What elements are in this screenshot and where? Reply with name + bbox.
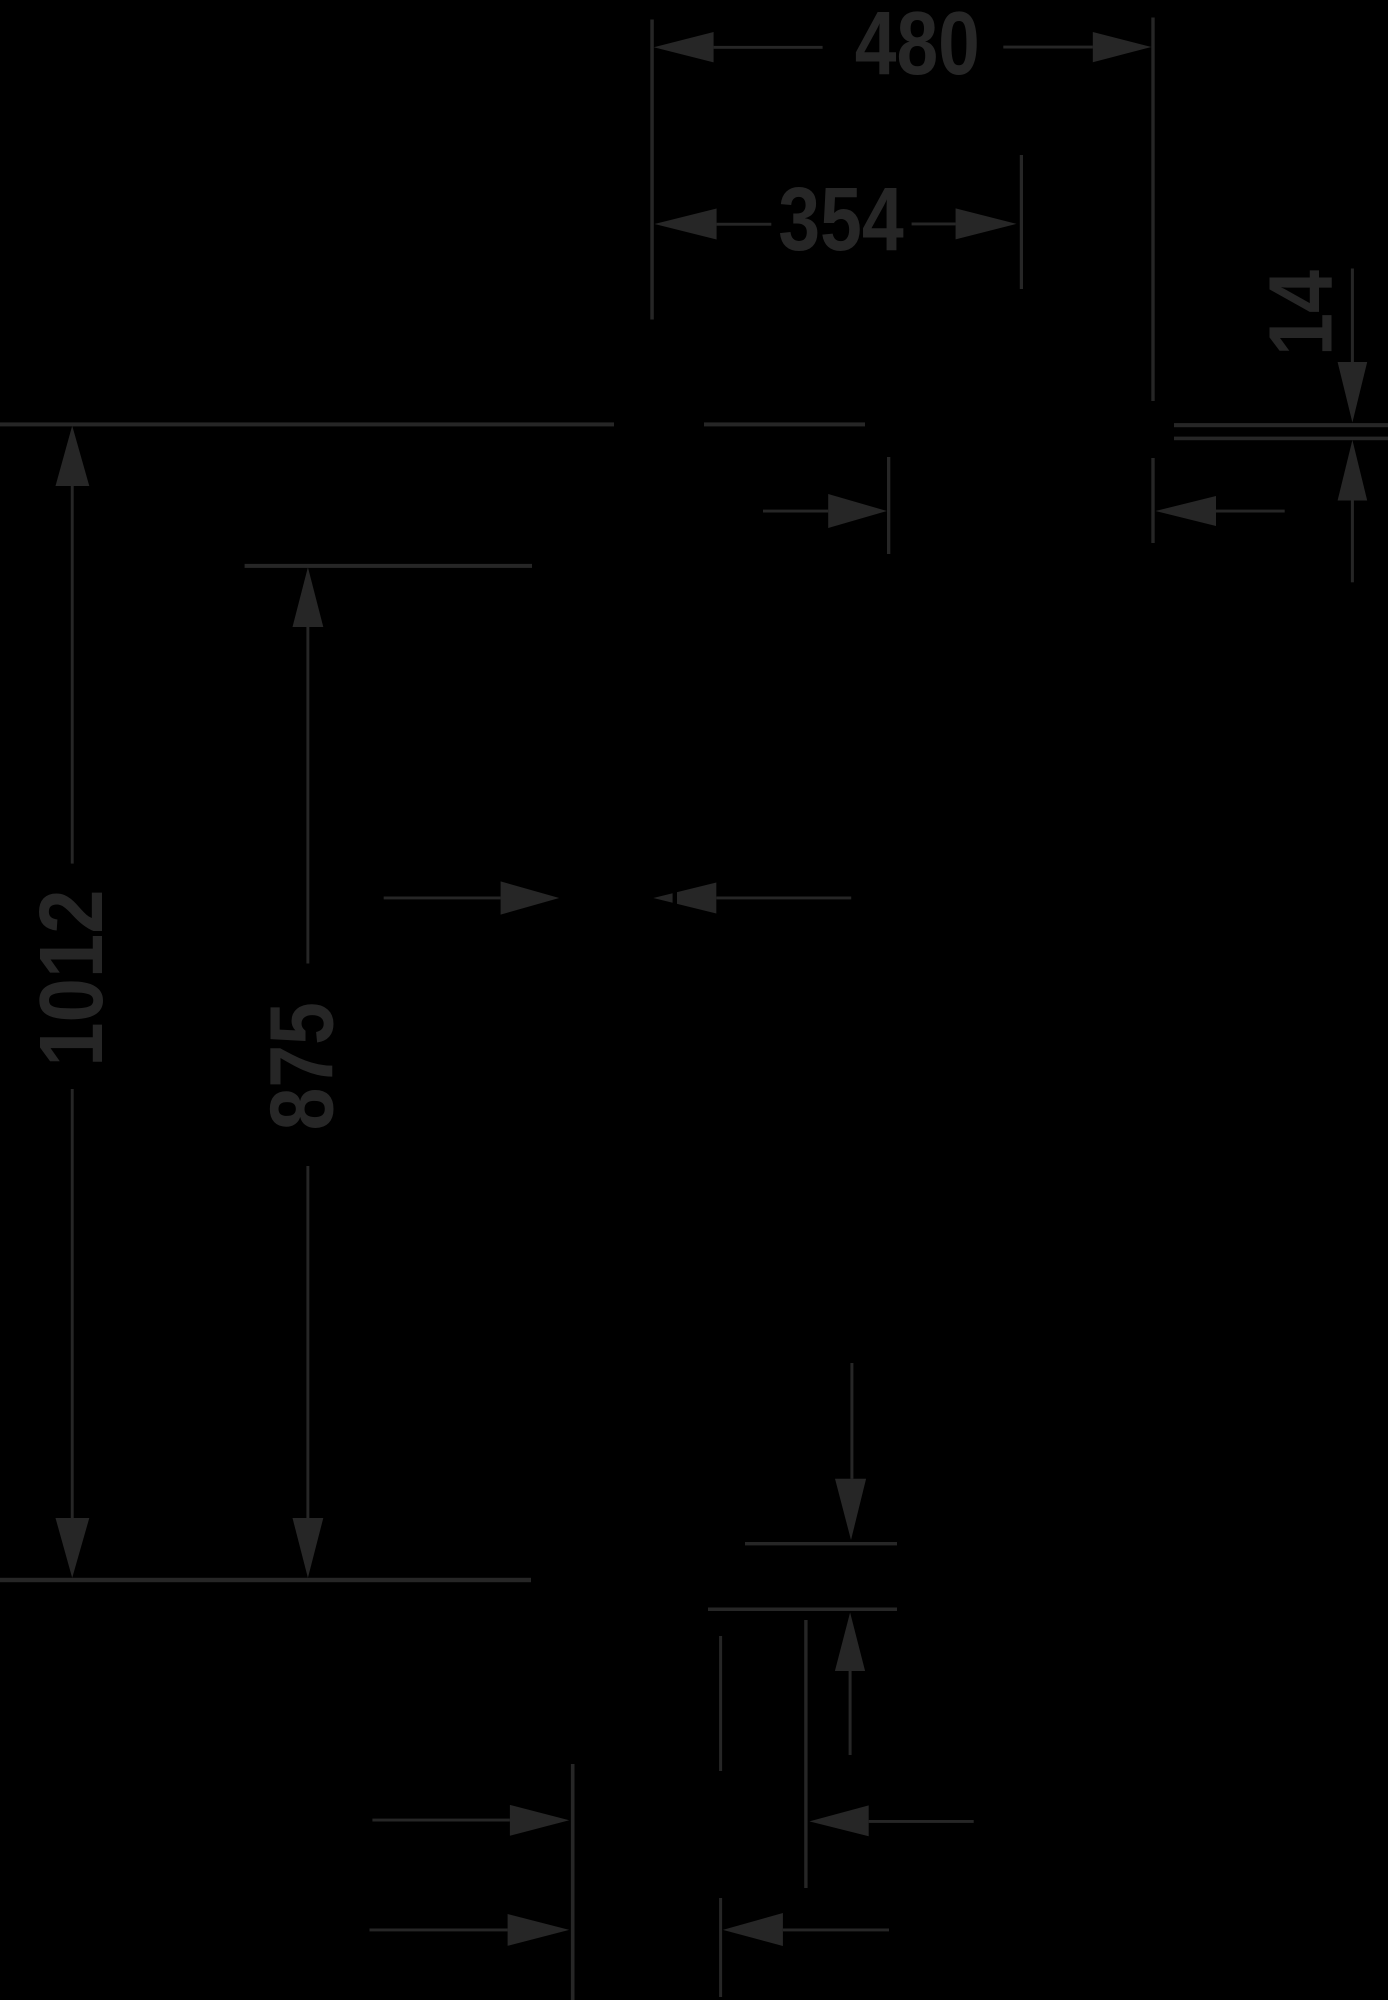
svg-text:875: 875 [253,1002,353,1130]
svg-text:14: 14 [1252,270,1352,356]
svg-text:1012: 1012 [22,889,122,1066]
svg-text:480: 480 [855,0,980,94]
svg-text:354: 354 [778,170,904,270]
